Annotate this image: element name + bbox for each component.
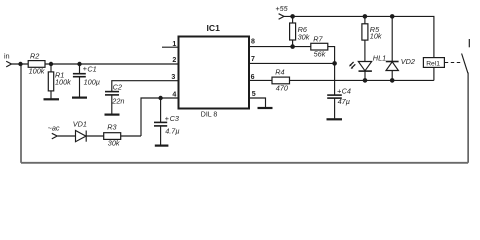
node junction at in xyxy=(18,62,22,66)
svg-text:R7: R7 xyxy=(313,34,323,43)
capacitor C4 xyxy=(327,63,351,118)
svg-text:8: 8 xyxy=(251,39,255,46)
node junction HL1 bottom xyxy=(363,78,368,83)
resistor R2 xyxy=(28,51,45,75)
svg-text:C3: C3 xyxy=(170,114,179,123)
ground under C1 xyxy=(72,96,87,98)
svg-text:4.7µ: 4.7µ xyxy=(165,127,179,136)
svg-text:7: 7 xyxy=(251,56,255,63)
node junction pin7/C4 xyxy=(332,61,337,66)
svg-text:100k: 100k xyxy=(29,66,45,75)
pin 1 xyxy=(162,41,179,48)
svg-text:10k: 10k xyxy=(370,31,382,40)
wire bottom rail xyxy=(21,162,468,164)
node ~ac (input terminal) xyxy=(48,124,60,139)
svg-text:R3: R3 xyxy=(107,123,116,132)
resistor R1 xyxy=(48,64,71,99)
svg-text:3: 3 xyxy=(171,74,175,81)
svg-text:47µ: 47µ xyxy=(338,97,350,106)
node junction R6 top xyxy=(290,14,295,19)
svg-text:470: 470 xyxy=(276,84,288,93)
svg-text:Rel1: Rel1 xyxy=(426,60,440,67)
svg-text:IC1: IC1 xyxy=(207,23,221,33)
svg-text:C2: C2 xyxy=(113,82,122,91)
node junction R5 top xyxy=(363,14,368,19)
node junction C1 xyxy=(77,62,81,66)
svg-text:56k: 56k xyxy=(314,50,326,59)
resistor R4 xyxy=(272,68,290,93)
wire input rail to IC pin 2 xyxy=(12,63,179,65)
op-amp U1 (IC1 box) xyxy=(179,23,250,119)
svg-text:5: 5 xyxy=(252,91,256,98)
node junction VD2 top xyxy=(390,14,395,19)
wire pin6 row right xyxy=(290,79,434,81)
LED HL1 xyxy=(349,53,386,80)
switch contact Rel1.1 xyxy=(462,39,470,163)
svg-text:R4: R4 xyxy=(275,68,284,77)
wire R7 to pin7 row xyxy=(328,47,335,64)
wire pin6 row left xyxy=(249,79,272,81)
node junction C3 xyxy=(158,96,162,100)
node in (input terminal) xyxy=(4,52,12,67)
svg-text:+55: +55 xyxy=(275,4,288,13)
wire VD1 to R3 xyxy=(86,135,104,137)
svg-text:100k: 100k xyxy=(55,77,71,86)
wire ac to VD1 xyxy=(57,135,75,137)
node junction pin8/R6 xyxy=(290,44,295,49)
resistor R5 xyxy=(362,16,382,61)
svg-text:22n: 22n xyxy=(111,96,124,105)
svg-text:VD2: VD2 xyxy=(401,57,415,66)
diode VD2 xyxy=(386,16,415,80)
svg-text:C1: C1 xyxy=(87,65,96,74)
resistor R7 xyxy=(311,34,328,58)
wire pin3 to C2 xyxy=(112,81,179,92)
wire pin4 row xyxy=(141,98,179,136)
svg-text:R2: R2 xyxy=(30,51,39,60)
svg-text:100µ: 100µ xyxy=(84,77,100,86)
wire R3 to pin4 riser xyxy=(121,135,141,137)
wire relay actuation dashed link xyxy=(445,62,461,64)
ground under C3 xyxy=(155,145,169,147)
wire pin5 to ground xyxy=(249,98,266,107)
node junction VD2 bottom xyxy=(390,78,395,83)
svg-text:4: 4 xyxy=(172,91,176,98)
wire left drop to bottom rail xyxy=(20,64,22,163)
svg-text:30k: 30k xyxy=(298,32,310,41)
ground under R1 xyxy=(44,98,60,100)
relay Rel1 xyxy=(423,58,444,81)
svg-text:HL1: HL1 xyxy=(373,53,386,62)
resistor R3 xyxy=(104,123,121,148)
wire pin8 row xyxy=(249,46,311,48)
ground under C4 xyxy=(327,118,343,120)
diode VD1 xyxy=(73,120,87,142)
svg-text:DIL 8: DIL 8 xyxy=(201,111,218,118)
svg-text:2: 2 xyxy=(172,57,176,64)
svg-text:~ac: ~ac xyxy=(48,124,60,133)
svg-text:in: in xyxy=(4,52,10,60)
wire pin7 row xyxy=(249,62,335,64)
svg-text:VD1: VD1 xyxy=(73,120,87,129)
ground under C2 xyxy=(105,113,120,115)
ground under pin5 xyxy=(258,107,273,109)
resistor R6 xyxy=(290,16,310,46)
capacitor C3 xyxy=(154,98,180,145)
node +55 (supply terminal) xyxy=(275,4,288,19)
svg-text:C4: C4 xyxy=(342,87,351,96)
wire top supply rail xyxy=(284,16,434,57)
svg-text:30k: 30k xyxy=(108,139,120,148)
svg-text:1: 1 xyxy=(172,41,176,48)
capacitor C1 xyxy=(73,64,100,97)
capacitor C2 xyxy=(105,82,124,113)
node junction R2/R1 xyxy=(49,62,53,66)
